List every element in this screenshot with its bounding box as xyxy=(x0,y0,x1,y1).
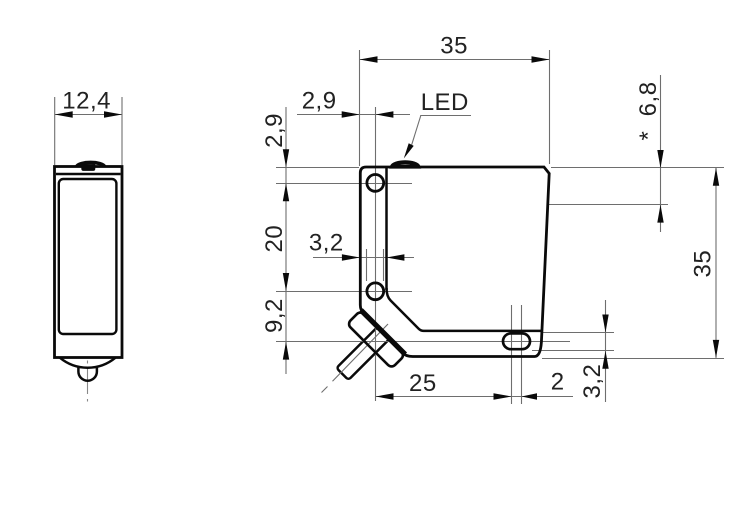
svg-text:35: 35 xyxy=(689,250,716,278)
svg-text:3,2: 3,2 xyxy=(579,364,606,399)
svg-text:20: 20 xyxy=(261,225,288,253)
svg-text:35: 35 xyxy=(440,32,468,59)
svg-text:* 6,8: * 6,8 xyxy=(635,81,662,140)
svg-text:12,4: 12,4 xyxy=(62,88,111,115)
svg-text:LED: LED xyxy=(421,89,469,116)
svg-text:2: 2 xyxy=(551,369,565,396)
svg-text:25: 25 xyxy=(409,370,437,397)
svg-text:9,2: 9,2 xyxy=(261,298,288,333)
svg-text:2,9: 2,9 xyxy=(302,88,337,115)
svg-text:3,2: 3,2 xyxy=(309,230,344,257)
svg-text:2,9: 2,9 xyxy=(261,113,288,148)
